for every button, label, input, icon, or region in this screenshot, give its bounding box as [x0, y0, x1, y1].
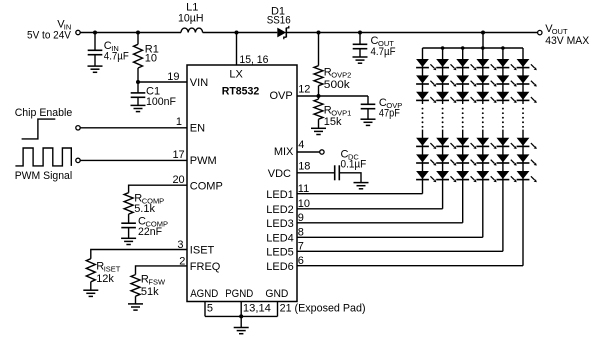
svg-text:LX: LX [229, 68, 243, 80]
LED column 3 row 6 [456, 171, 469, 179]
resistor RCOMP 5.1k [124, 193, 133, 214]
LED column 6 row 1 [517, 59, 530, 67]
svg-text:17: 17 [172, 149, 184, 161]
wire COMP [129, 185, 187, 193]
capacitor COVP 47pF [367, 96, 369, 104]
ground CCOMP [121, 237, 136, 239]
node LED-matrix feed junction [481, 31, 485, 35]
node rail junction [441, 46, 445, 50]
LED column 4 row 1 [476, 59, 489, 67]
svg-text:FREQ: FREQ [190, 261, 221, 273]
wire LED column 5 upper segment [502, 48, 504, 104]
svg-text:LED6: LED6 [266, 261, 294, 273]
capacitor COUT [359, 33, 361, 45]
ground COUT [353, 56, 368, 58]
svg-text:LED4: LED4 [266, 233, 294, 245]
ground CDC [354, 182, 369, 184]
LED column 5 row 4 [497, 138, 510, 146]
LED column 2 row 1 [436, 59, 449, 67]
wire LED1 [297, 193, 423, 195]
svg-text:Chip Enable: Chip Enable [15, 107, 72, 119]
LED column 4 row 6 [476, 171, 489, 179]
svg-text:PWM Signal: PWM Signal [15, 170, 72, 182]
svg-text:4: 4 [298, 139, 304, 151]
svg-text:COMP: COMP [190, 180, 223, 192]
wire input rail VIN to L1 [80, 32, 181, 34]
diode D1 SS16 [277, 28, 286, 38]
wire LED5 [297, 250, 503, 252]
svg-text:PGND: PGND [225, 288, 253, 300]
svg-text:RT8532: RT8532 [222, 86, 260, 98]
svg-text:VDC: VDC [268, 168, 291, 180]
LED column 1 row 1 [416, 59, 429, 67]
LED column 5 row 1 [497, 59, 510, 67]
svg-text:LED5: LED5 [266, 247, 294, 259]
resistor ROVP1 15k [318, 96, 320, 99]
terminal EN [76, 126, 80, 130]
svg-text:5: 5 [207, 303, 213, 315]
LED column 6 row 5 [517, 154, 530, 162]
pin 5 AGND stub [204, 302, 206, 317]
wire LED column 5 lower segment [502, 130, 504, 252]
svg-text:PWM: PWM [190, 155, 217, 167]
svg-text:10µH: 10µH [178, 13, 204, 25]
svg-text:GND: GND [265, 288, 288, 300]
svg-text:12k: 12k [96, 273, 114, 285]
wire EN [80, 127, 187, 129]
svg-text:18: 18 [298, 161, 310, 173]
terminal MIX open [320, 150, 324, 154]
wire LED column 2 lower segment [442, 130, 444, 209]
wire LED column 6 lower segment [522, 130, 524, 266]
LED column 4 row 4 [476, 138, 489, 146]
LED column 2 row 4 [436, 138, 449, 146]
LED column 6 row 4 [517, 138, 530, 146]
svg-text:51k: 51k [141, 286, 159, 298]
node rail junction [501, 46, 505, 50]
node rail junction [461, 46, 465, 50]
wire D1 to VOUT [286, 32, 537, 34]
LED column 3 row 4 [456, 138, 469, 146]
LED column 3 row 2 [456, 75, 469, 83]
wire LED6 [297, 265, 523, 267]
pin 13,14 PGND stub [240, 302, 242, 317]
svg-text:LED1: LED1 [266, 189, 294, 201]
wire LX pin 15,16 [236, 33, 238, 66]
node R1/C1/VIN-pin junction [136, 80, 140, 84]
op-amp/IC U1 RT8532 box [187, 65, 297, 302]
wire LED column 4 upper segment [482, 48, 484, 104]
ground CIN [88, 65, 103, 67]
svg-text:12: 12 [298, 84, 310, 96]
LED column 1 row 5 [416, 154, 429, 162]
svg-text:21 (Exposed Pad): 21 (Exposed Pad) [280, 303, 366, 315]
wire LED column 2 upper segment [442, 48, 444, 104]
LED column 4 row 3 [476, 92, 489, 100]
wire LED column 1 lower segment [422, 130, 424, 194]
ground RFSW [128, 303, 143, 305]
svg-text:4.7µF: 4.7µF [104, 51, 129, 63]
wire LED4 [297, 236, 483, 238]
LED column 1 row 6 [416, 171, 429, 179]
LED column 2 row 3 [436, 92, 449, 100]
dotted continuation column 3 [462, 108, 464, 110]
capacitor CCOMP 22nF [121, 222, 136, 224]
svg-text:5V to 24V: 5V to 24V [27, 30, 72, 42]
terminal PWM [76, 158, 80, 162]
LED column 2 row 5 [436, 154, 449, 162]
wire PWM [80, 159, 187, 161]
terminal VOUT [538, 30, 542, 34]
resistor R1 [137, 33, 139, 45]
wire LED column 3 upper segment [462, 48, 464, 104]
dotted continuation column 1 [422, 108, 424, 110]
LED column 3 row 1 [456, 59, 469, 67]
svg-text:VIN: VIN [190, 77, 208, 89]
wire LED column 4 lower segment [482, 130, 484, 238]
svg-text:13,14: 13,14 [243, 303, 271, 315]
svg-text:AGND: AGND [190, 288, 218, 300]
ground main [240, 316, 242, 327]
LED column 5 row 3 [497, 92, 510, 100]
svg-text:OVP: OVP [269, 90, 292, 102]
wire feed to LED matrix rail [482, 33, 484, 49]
capacitor CIN [94, 33, 96, 51]
svg-text:LED3: LED3 [266, 218, 294, 230]
LED column 5 row 2 [497, 75, 510, 83]
capacitor C1 [137, 82, 139, 93]
PWM square waveform [15, 148, 71, 166]
wire VDC pin 18 [297, 172, 334, 174]
svg-text:20: 20 [172, 174, 184, 186]
svg-text:19: 19 [167, 71, 179, 83]
ground RISET [83, 289, 98, 291]
wire MIX pin 4 [297, 151, 320, 153]
node LX junction [235, 31, 239, 35]
svg-text:43V MAX: 43V MAX [545, 35, 590, 47]
resistor ROVP2 500k [318, 33, 320, 66]
node rail junction [481, 46, 485, 50]
dotted continuation column 2 [442, 108, 444, 110]
chip-enable step waveform [22, 119, 56, 139]
svg-text:EN: EN [190, 123, 205, 135]
LED column 1 row 2 [416, 75, 429, 83]
dotted continuation column 5 [502, 108, 504, 110]
wire LED3 [297, 222, 463, 224]
svg-text:47pF: 47pF [379, 107, 400, 119]
node OVP junction [317, 94, 321, 98]
wire LED column 1 upper segment [422, 48, 424, 104]
wire L1 to D1 [203, 32, 278, 34]
svg-text:SS16: SS16 [267, 15, 291, 27]
LED column 3 row 5 [456, 154, 469, 162]
LED column 6 row 3 [517, 92, 530, 100]
svg-text:1: 1 [176, 116, 182, 128]
wire LED column 3 lower segment [462, 130, 464, 223]
svg-text:4.7µF: 4.7µF [371, 46, 396, 58]
svg-text:MIX: MIX [274, 146, 294, 158]
node COUT junction [358, 31, 362, 35]
dotted continuation column 4 [482, 108, 484, 110]
LED column 4 row 5 [476, 154, 489, 162]
capacitor CDC 0.1uF (series) [334, 165, 336, 180]
svg-text:15k: 15k [324, 116, 342, 128]
wire ground bus [205, 315, 278, 317]
svg-text:5.1k: 5.1k [134, 203, 155, 215]
LED column 1 row 4 [416, 138, 429, 146]
ground COVP [361, 118, 376, 120]
svg-text:LED2: LED2 [266, 204, 294, 216]
node ground junction [239, 314, 243, 318]
wire ISET [91, 250, 187, 259]
resistor RFSW 51k [131, 275, 140, 297]
wire LED2 [297, 208, 443, 210]
LED column 6 row 2 [517, 75, 530, 83]
LED column 6 row 6 [517, 171, 530, 179]
svg-text:0.1µF: 0.1µF [341, 159, 367, 171]
node R1 top junction [136, 31, 140, 35]
wire LED matrix top rail [423, 47, 524, 49]
LED column 2 row 6 [436, 171, 449, 179]
ground ROVP1 [311, 127, 326, 129]
svg-text:ISET: ISET [190, 244, 215, 256]
dotted continuation column 6 [522, 108, 524, 110]
svg-text:22nF: 22nF [138, 226, 162, 238]
LED column 5 row 5 [497, 154, 510, 162]
node ROVP2 junction on output rail [317, 31, 321, 35]
wire FREQ [136, 266, 188, 275]
terminal VIN [76, 30, 80, 34]
LED column 3 row 3 [456, 92, 469, 100]
resistor RISET 12k [86, 259, 95, 282]
ground C1 [131, 104, 146, 106]
LED column 5 row 6 [497, 171, 510, 179]
LED column 2 row 2 [436, 75, 449, 83]
node CIN junction [93, 31, 97, 35]
svg-text:10: 10 [145, 53, 157, 65]
pin 21 GND stub [277, 302, 279, 317]
wire OVP pin 12 [297, 95, 368, 97]
svg-text:15, 16: 15, 16 [239, 54, 268, 66]
inductor L1 10uH [181, 28, 203, 32]
LED column 1 row 3 [416, 92, 429, 100]
LED column 4 row 2 [476, 75, 489, 83]
svg-text:100nF: 100nF [146, 96, 176, 108]
wire to VIN pin 19 [138, 81, 187, 83]
svg-text:500k: 500k [324, 79, 351, 91]
wire LED column 6 upper segment [522, 48, 524, 104]
